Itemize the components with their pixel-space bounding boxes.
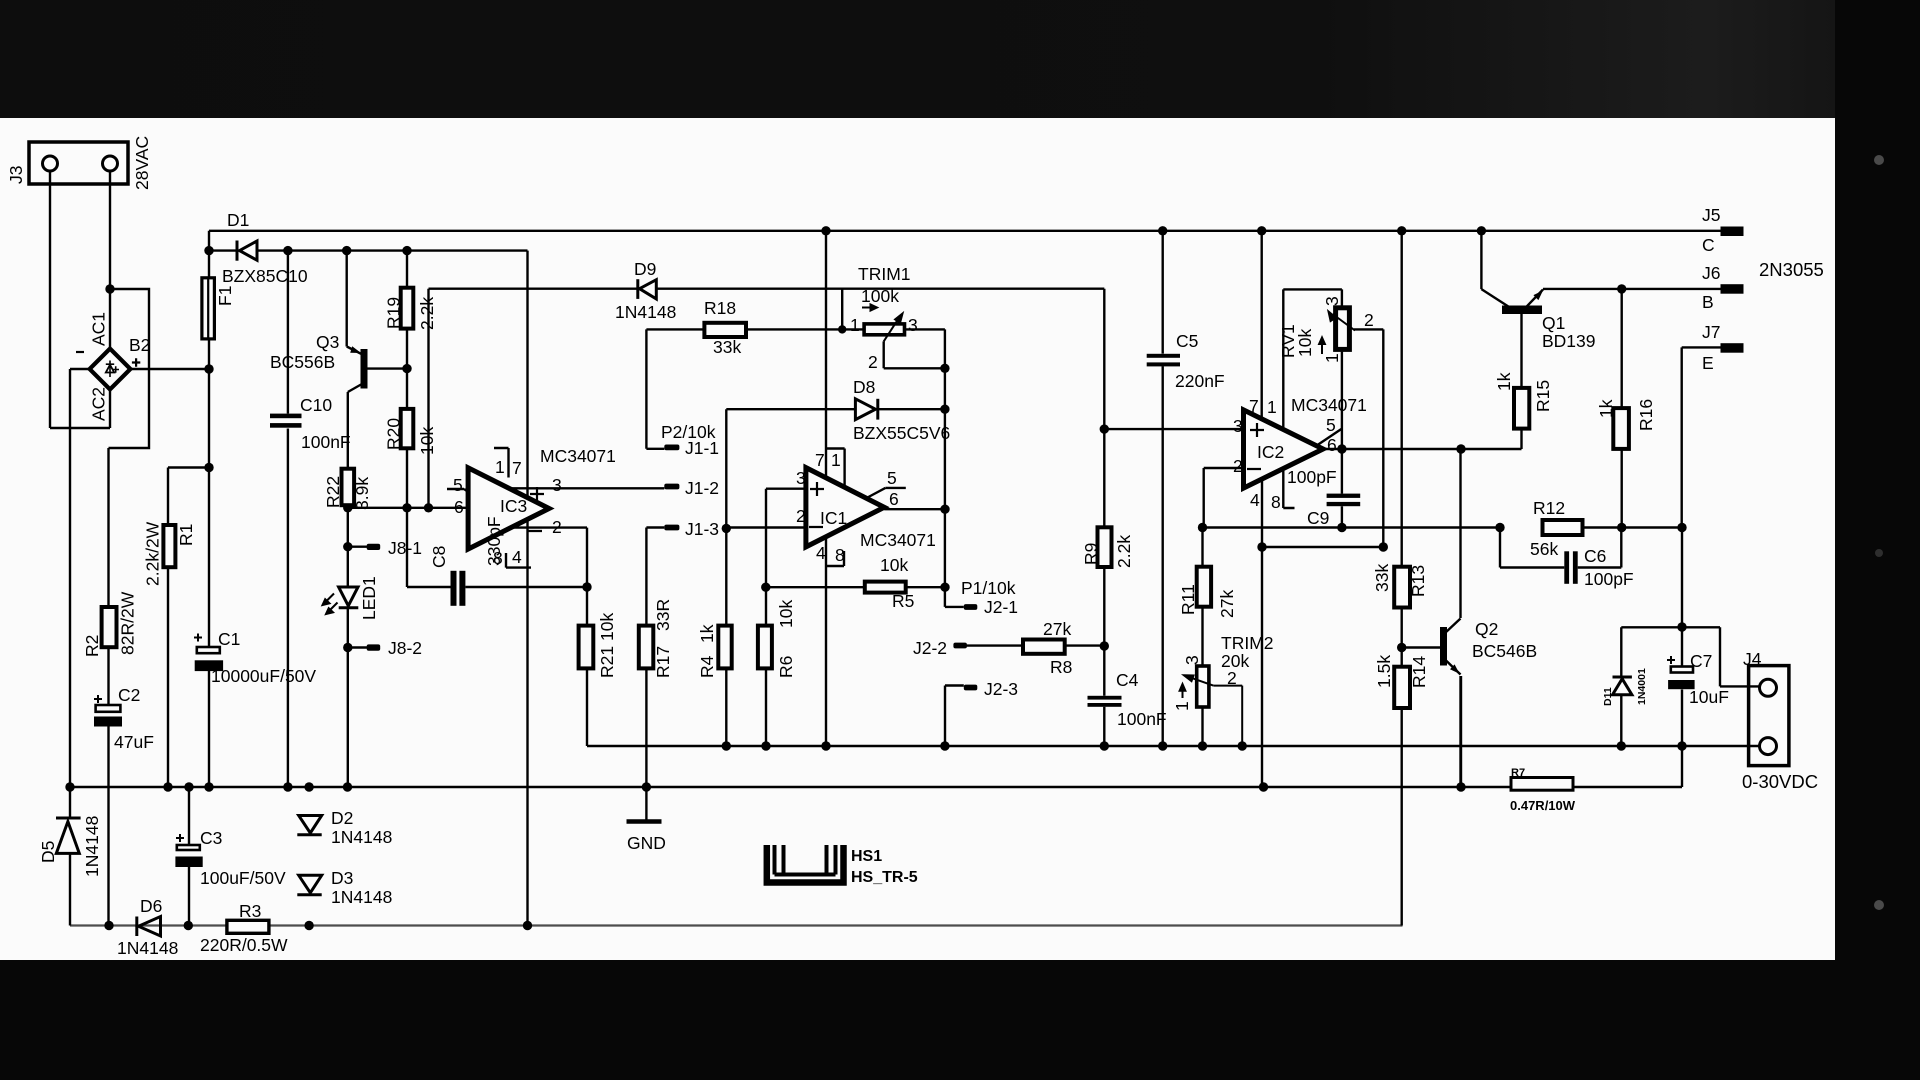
- svg-text:33k: 33k: [713, 337, 741, 357]
- svg-text:R21: R21: [597, 646, 617, 678]
- svg-text:C4: C4: [1116, 670, 1139, 690]
- svg-text:10k: 10k: [597, 613, 617, 641]
- svg-text:D9: D9: [634, 259, 656, 279]
- svg-text:1: 1: [831, 450, 841, 470]
- svg-text:1N4148: 1N4148: [117, 938, 178, 958]
- svg-text:D5: D5: [38, 841, 58, 863]
- svg-text:C: C: [1702, 235, 1715, 255]
- svg-text:2: 2: [552, 517, 562, 537]
- svg-text:R12: R12: [1533, 498, 1565, 518]
- svg-text:3: 3: [796, 468, 806, 488]
- svg-text:1: 1: [495, 457, 505, 477]
- svg-text:J3: J3: [6, 166, 26, 184]
- svg-text:E: E: [1702, 353, 1714, 373]
- svg-text:C2: C2: [118, 685, 140, 705]
- svg-text:220nF: 220nF: [1175, 371, 1225, 391]
- svg-text:R20: R20: [384, 418, 404, 450]
- svg-text:R5: R5: [892, 591, 914, 611]
- svg-text:J5: J5: [1702, 205, 1720, 225]
- svg-text:100pF: 100pF: [1584, 569, 1634, 589]
- svg-text:B: B: [1702, 292, 1714, 312]
- svg-text:330pF: 330pF: [484, 516, 504, 566]
- svg-text:IC2: IC2: [1257, 442, 1284, 462]
- svg-text:6: 6: [454, 497, 464, 517]
- svg-text:C1: C1: [218, 629, 240, 649]
- svg-text:2: 2: [868, 352, 878, 372]
- svg-text:Q1: Q1: [1542, 313, 1565, 333]
- svg-text:D2: D2: [331, 808, 353, 828]
- svg-text:1k: 1k: [1494, 372, 1514, 391]
- svg-text:100k: 100k: [861, 286, 899, 306]
- svg-text:R9: R9: [1081, 543, 1101, 565]
- svg-text:28VAC: 28VAC: [132, 136, 152, 190]
- svg-text:MC34071: MC34071: [540, 446, 616, 466]
- svg-text:3: 3: [1322, 296, 1342, 306]
- svg-text:1k: 1k: [697, 624, 717, 643]
- svg-text:D6: D6: [140, 896, 162, 916]
- svg-text:3: 3: [1182, 655, 1202, 665]
- svg-text:3: 3: [1233, 416, 1243, 436]
- svg-text:LED1: LED1: [359, 576, 379, 620]
- svg-text:R2: R2: [82, 635, 102, 657]
- svg-text:B2: B2: [129, 335, 150, 355]
- svg-text:J1-3: J1-3: [685, 519, 719, 539]
- svg-text:R15: R15: [1533, 380, 1553, 412]
- svg-text:R3: R3: [239, 901, 261, 921]
- svg-text:C10: C10: [300, 395, 332, 415]
- svg-text:J2-1: J2-1: [984, 597, 1018, 617]
- svg-text:3: 3: [908, 315, 918, 335]
- svg-text:R18: R18: [704, 298, 736, 318]
- svg-text:1k: 1k: [1596, 399, 1616, 418]
- svg-text:8: 8: [1271, 492, 1281, 512]
- svg-text:2: 2: [796, 506, 806, 526]
- svg-text:IC3: IC3: [500, 496, 527, 516]
- svg-text:0-30VDC: 0-30VDC: [1742, 771, 1818, 792]
- svg-text:C9: C9: [1307, 508, 1329, 528]
- svg-text:BC556B: BC556B: [270, 352, 335, 372]
- svg-text:8: 8: [835, 545, 845, 565]
- svg-text:BC546B: BC546B: [1472, 641, 1537, 661]
- svg-text:TRIM2: TRIM2: [1221, 633, 1274, 653]
- svg-text:J6: J6: [1702, 263, 1720, 283]
- svg-text:4: 4: [816, 543, 826, 563]
- svg-text:2: 2: [1233, 456, 1243, 476]
- svg-text:1: 1: [1322, 353, 1342, 363]
- svg-text:C6: C6: [1584, 546, 1606, 566]
- svg-text:4: 4: [1250, 490, 1260, 510]
- svg-text:5: 5: [1326, 415, 1336, 435]
- svg-text:C7: C7: [1690, 651, 1712, 671]
- svg-text:1: 1: [1267, 397, 1277, 417]
- svg-text:2N3055: 2N3055: [1759, 259, 1824, 280]
- svg-text:2: 2: [1227, 668, 1237, 688]
- svg-text:27k: 27k: [1043, 619, 1071, 639]
- svg-text:2: 2: [1364, 310, 1374, 330]
- svg-text:3.9k: 3.9k: [352, 477, 372, 510]
- svg-text:BD139: BD139: [1542, 331, 1596, 351]
- svg-text:10k: 10k: [417, 427, 437, 455]
- svg-text:R19: R19: [384, 297, 404, 329]
- svg-text:10k: 10k: [880, 555, 908, 575]
- svg-text:1: 1: [850, 315, 860, 335]
- svg-text:J8-2: J8-2: [388, 638, 422, 658]
- svg-text:4: 4: [512, 547, 522, 567]
- svg-text:C5: C5: [1176, 331, 1198, 351]
- svg-text:R13: R13: [1408, 565, 1428, 597]
- svg-text:J2-3: J2-3: [984, 679, 1018, 699]
- svg-text:HS1: HS1: [851, 848, 882, 865]
- svg-text:BZX85C10: BZX85C10: [222, 266, 308, 286]
- svg-text:D11: D11: [1602, 687, 1614, 706]
- svg-text:1N4001: 1N4001: [1636, 668, 1648, 705]
- svg-text:100pF: 100pF: [1287, 467, 1337, 487]
- svg-text:C8: C8: [429, 546, 449, 568]
- svg-text:220R/0.5W: 220R/0.5W: [200, 935, 288, 955]
- svg-text:R7: R7: [1511, 767, 1525, 779]
- svg-text:10k: 10k: [1295, 329, 1315, 357]
- svg-text:1N4148: 1N4148: [331, 827, 392, 847]
- svg-text:Q3: Q3: [316, 332, 339, 352]
- svg-text:7: 7: [1249, 396, 1259, 416]
- svg-text:1N4148: 1N4148: [615, 302, 676, 322]
- svg-text:6: 6: [889, 489, 899, 509]
- svg-text:R6: R6: [776, 656, 796, 678]
- svg-text:1: 1: [1172, 701, 1192, 711]
- svg-text:TRIM1: TRIM1: [858, 264, 911, 284]
- svg-text:R22: R22: [323, 476, 343, 508]
- svg-text:1.5k: 1.5k: [1374, 655, 1394, 688]
- svg-text:J1-1: J1-1: [685, 438, 719, 458]
- svg-text:10k: 10k: [776, 600, 796, 628]
- svg-text:2.2k/2W: 2.2k/2W: [143, 521, 163, 586]
- svg-text:J8-1: J8-1: [388, 538, 422, 558]
- svg-text:AC1: AC1: [89, 312, 109, 346]
- svg-text:R17: R17: [653, 646, 673, 678]
- svg-text:2.2k: 2.2k: [1114, 535, 1134, 568]
- svg-text:R11: R11: [1178, 584, 1198, 615]
- svg-text:100uF/50V: 100uF/50V: [200, 868, 286, 888]
- svg-text:AC2: AC2: [89, 387, 109, 421]
- svg-text:D3: D3: [331, 868, 353, 888]
- svg-text:R4: R4: [697, 655, 717, 678]
- svg-text:R16: R16: [1636, 399, 1656, 431]
- svg-text:R14: R14: [1409, 656, 1429, 688]
- svg-text:MC34071: MC34071: [860, 530, 936, 550]
- svg-text:3: 3: [552, 475, 562, 495]
- svg-text:56k: 56k: [1530, 539, 1558, 559]
- svg-text:R1: R1: [176, 524, 196, 546]
- svg-text:J4: J4: [1743, 649, 1762, 669]
- svg-text:7: 7: [815, 450, 825, 470]
- svg-text:HS_TR-5: HS_TR-5: [851, 869, 918, 886]
- svg-text:C3: C3: [200, 828, 222, 848]
- svg-text:F1: F1: [215, 286, 235, 306]
- svg-text:5: 5: [887, 468, 897, 488]
- svg-text:GND: GND: [627, 833, 666, 853]
- svg-text:5: 5: [453, 475, 463, 495]
- svg-text:BZX55C5V6: BZX55C5V6: [853, 423, 950, 443]
- svg-text:MC34071: MC34071: [1291, 395, 1367, 415]
- svg-text:R8: R8: [1050, 657, 1072, 677]
- svg-text:D1: D1: [227, 210, 249, 230]
- svg-text:47uF: 47uF: [114, 732, 154, 752]
- svg-text:2.2k: 2.2k: [417, 297, 437, 330]
- svg-text:10uF: 10uF: [1689, 687, 1729, 707]
- svg-text:IC1: IC1: [820, 508, 847, 528]
- svg-text:100nF: 100nF: [1117, 709, 1167, 729]
- svg-text:J1-2: J1-2: [685, 478, 719, 498]
- svg-text:0.47R/10W: 0.47R/10W: [1510, 798, 1576, 813]
- svg-text:7: 7: [512, 458, 522, 478]
- svg-text:6: 6: [1327, 435, 1337, 455]
- svg-text:33R: 33R: [653, 599, 673, 631]
- svg-text:10000uF/50V: 10000uF/50V: [211, 666, 316, 686]
- svg-text:P1/10k: P1/10k: [961, 578, 1016, 598]
- svg-text:27k: 27k: [1217, 590, 1237, 618]
- svg-text:D8: D8: [853, 377, 875, 397]
- svg-text:J7: J7: [1702, 322, 1720, 342]
- svg-text:100nF: 100nF: [301, 432, 351, 452]
- svg-text:Q2: Q2: [1475, 619, 1498, 639]
- svg-text:1N4148: 1N4148: [82, 816, 102, 877]
- svg-text:33k: 33k: [1372, 564, 1392, 592]
- svg-text:1N4148: 1N4148: [331, 887, 392, 907]
- svg-text:82R/2W: 82R/2W: [118, 591, 138, 655]
- svg-text:J2-2: J2-2: [913, 638, 947, 658]
